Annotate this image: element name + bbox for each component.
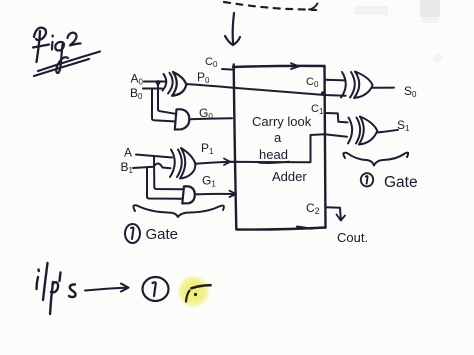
wire A0 to XOR U1 [144,81,165,83]
brace under right XOR gate [343,153,408,166]
wire B1 to XOR U3 with hop [133,163,171,168]
wire G1 to adder with arrowhead [195,191,236,197]
wire B1 tap to AND U4 [147,169,183,199]
svg-text:Carry look: Carry look [252,114,312,129]
circled 1 result [143,277,169,301]
brace under left gates [133,205,224,217]
junction where P0 crosses right edge [321,91,325,95]
wire B0 tap to AND U2 [152,89,176,122]
junction tap A0 [156,80,161,85]
yellow highlight mark [178,276,211,307]
wire A0 tap to AND U2 [158,84,176,114]
arrow i/p's to circled 1 [85,284,129,292]
label i/p's (hand-drawn strokes) [37,263,76,314]
and gate U2 (G0) [175,109,190,129]
label circled 1 right [361,173,373,186]
svg-text:A: A [124,146,132,160]
svg-text:Cout.: Cout. [337,230,368,245]
wire C0 to XOR U6 [325,79,346,82]
svg-text:Adder: Adder [272,169,307,184]
wire B0 to XOR U1 [143,88,162,90]
label head underlined [259,147,289,163]
wire C1 step to XOR U7 [325,113,348,122]
wire G0 to adder [190,118,233,119]
and gate U4 (G1) [182,186,195,203]
wire A to XOR U3 [136,155,172,158]
wire S1 out [377,130,399,133]
svg-text:Gate: Gate [146,226,179,243]
wire S0 out [372,87,394,89]
svg-text:a: a [274,130,282,145]
dashed curve end tick [309,4,318,10]
xor gate U1 (P0) [163,72,187,96]
xor gate U7 (S1) [348,117,377,145]
label circled 1 left [125,224,140,243]
wire P1 with arrowhead into adder, step up, to XOR U7 [195,134,347,165]
label Fig 2 (hand-drawn strokes) [33,28,100,76]
svg-text:Gate: Gate [384,174,418,191]
xor gate U6 (S0) [341,72,373,99]
wire P0 through adder to XOR U6 [186,84,346,96]
svg-text:head: head [259,147,288,162]
dashed guide curve [224,2,316,10]
down arrow [225,13,240,45]
wire C2 to Cout with arrow [326,207,346,220]
wire C0 carry-in stub [222,68,233,71]
wire A tap to AND U4 [154,157,183,190]
carry look ahead adder block U5 [233,63,326,229]
xor gate U3 (P1) [170,148,196,179]
